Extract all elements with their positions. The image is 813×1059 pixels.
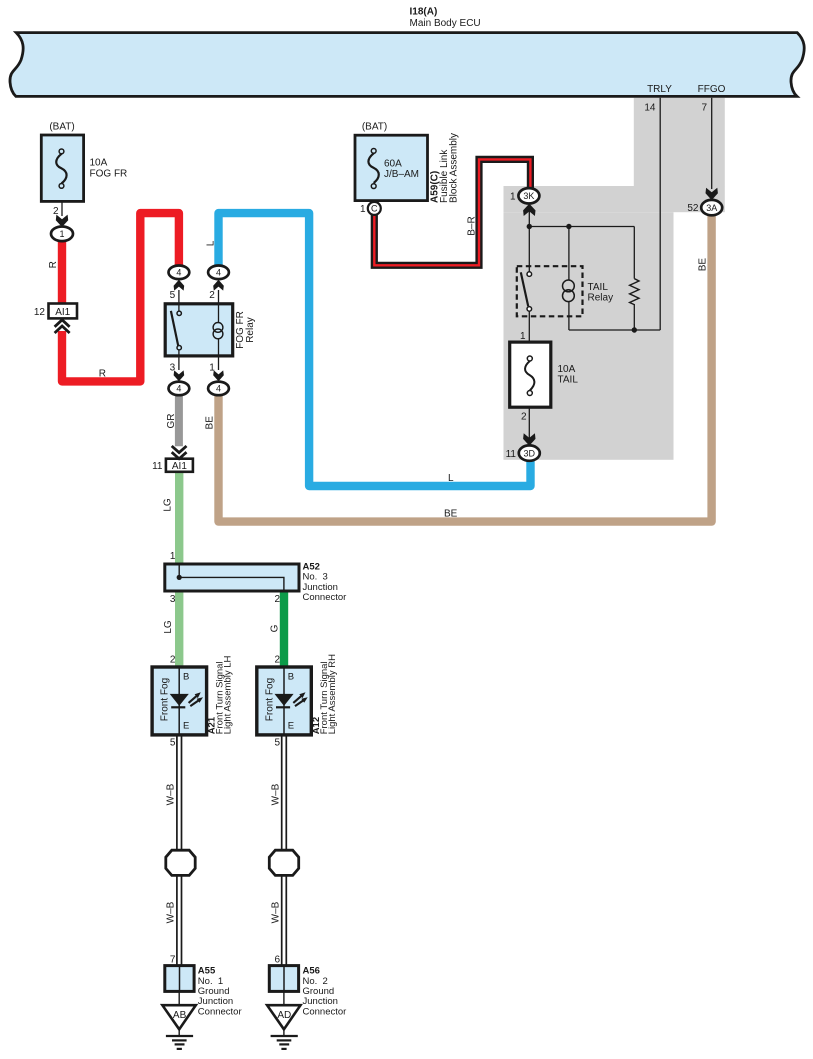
svg-text:6: 6 — [275, 954, 281, 965]
svg-text:2: 2 — [170, 655, 176, 666]
svg-text:14: 14 — [644, 103, 656, 114]
svg-text:AI1: AI1 — [172, 461, 187, 472]
svg-text:3: 3 — [170, 363, 176, 374]
svg-text:2: 2 — [521, 412, 527, 423]
svg-text:BE: BE — [698, 258, 709, 272]
svg-text:2: 2 — [209, 290, 215, 301]
svg-text:1: 1 — [360, 204, 366, 215]
svg-text:B: B — [183, 672, 189, 683]
svg-text:R: R — [99, 369, 106, 380]
svg-text:Block Assembly: Block Assembly — [448, 133, 459, 203]
svg-text:Connector: Connector — [303, 592, 347, 603]
svg-text:Light Assembly LH: Light Assembly LH — [222, 655, 233, 734]
svg-text:7: 7 — [170, 954, 176, 965]
svg-text:TAIL: TAIL — [588, 282, 609, 293]
svg-text:TAIL: TAIL — [558, 375, 579, 386]
svg-text:52: 52 — [687, 203, 699, 214]
svg-text:LG: LG — [163, 620, 174, 634]
svg-text:Light Assembly RH: Light Assembly RH — [327, 654, 338, 734]
svg-text:Front Fog: Front Fog — [264, 678, 275, 721]
svg-text:FFGO: FFGO — [698, 84, 726, 95]
svg-text:E: E — [183, 721, 189, 732]
svg-text:AB: AB — [173, 1010, 187, 1021]
svg-text:W–B: W–B — [270, 783, 281, 805]
svg-text:1: 1 — [170, 551, 176, 562]
svg-text:10A: 10A — [90, 158, 108, 169]
svg-text:4: 4 — [176, 268, 181, 278]
svg-text:7: 7 — [701, 103, 707, 114]
svg-text:B: B — [288, 672, 294, 683]
svg-text:5: 5 — [170, 737, 176, 748]
svg-text:Connector: Connector — [303, 1006, 347, 1017]
svg-text:I18(A): I18(A) — [410, 7, 438, 18]
svg-text:5: 5 — [275, 737, 281, 748]
svg-text:1: 1 — [510, 192, 516, 203]
svg-text:L: L — [206, 240, 217, 246]
svg-text:3K: 3K — [523, 191, 534, 201]
svg-text:(BAT): (BAT) — [49, 122, 74, 133]
svg-text:Relay: Relay — [245, 317, 256, 343]
svg-text:B–R: B–R — [467, 216, 478, 235]
svg-text:G: G — [270, 624, 281, 632]
svg-text:60A: 60A — [384, 159, 402, 170]
svg-text:E: E — [288, 721, 294, 732]
svg-text:W–B: W–B — [270, 901, 281, 923]
svg-text:TRLY: TRLY — [647, 84, 672, 95]
svg-text:4: 4 — [176, 384, 181, 394]
svg-text:L: L — [448, 473, 454, 484]
svg-text:5: 5 — [170, 290, 176, 301]
svg-text:10A: 10A — [558, 364, 576, 375]
svg-text:AI1: AI1 — [55, 307, 70, 318]
svg-text:W–B: W–B — [166, 783, 177, 805]
svg-text:2: 2 — [53, 206, 59, 217]
svg-text:AD: AD — [277, 1010, 291, 1021]
svg-text:11: 11 — [152, 461, 163, 472]
svg-text:R: R — [48, 261, 59, 268]
svg-text:2: 2 — [275, 655, 281, 666]
svg-text:J/B–AM: J/B–AM — [384, 169, 419, 180]
svg-text:1: 1 — [209, 363, 215, 374]
svg-text:C: C — [371, 204, 378, 214]
svg-text:(BAT): (BAT) — [362, 122, 387, 133]
svg-text:W–B: W–B — [166, 901, 177, 923]
svg-text:1: 1 — [59, 229, 64, 239]
svg-text:Main Body ECU: Main Body ECU — [410, 18, 481, 29]
svg-text:Relay: Relay — [588, 293, 614, 304]
svg-text:4: 4 — [216, 268, 221, 278]
svg-text:4: 4 — [216, 384, 221, 394]
svg-text:11: 11 — [506, 449, 517, 460]
svg-text:3A: 3A — [706, 203, 717, 213]
svg-text:FOG FR: FOG FR — [90, 169, 128, 180]
svg-text:BE: BE — [444, 509, 458, 520]
svg-text:BE: BE — [205, 416, 216, 430]
svg-text:12: 12 — [34, 307, 46, 318]
svg-text:3D: 3D — [524, 448, 536, 458]
svg-text:LG: LG — [163, 498, 174, 512]
svg-text:GR: GR — [166, 414, 177, 429]
svg-text:1: 1 — [520, 331, 526, 342]
svg-text:3: 3 — [170, 594, 176, 605]
svg-text:2: 2 — [275, 594, 281, 605]
svg-text:Front Fog: Front Fog — [160, 678, 171, 721]
svg-text:Connector: Connector — [198, 1006, 242, 1017]
